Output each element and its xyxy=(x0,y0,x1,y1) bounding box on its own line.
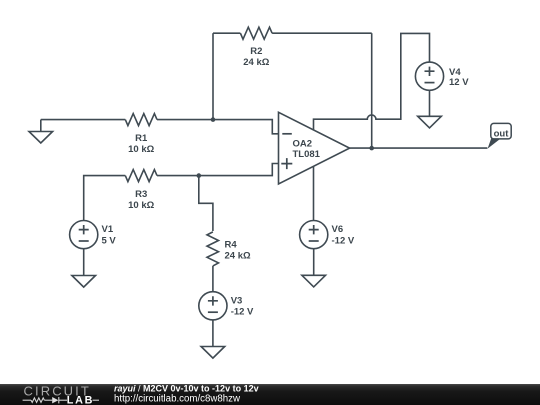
voltage source V4 xyxy=(415,62,469,90)
svg-text:R2: R2 xyxy=(250,46,262,57)
voltage source V3 xyxy=(199,292,254,320)
wire xyxy=(212,33,214,119)
svg-text:http://circuitlab.com/c8w8hzw: http://circuitlab.com/c8w8hzw xyxy=(114,394,241,405)
svg-text:10 kΩ: 10 kΩ xyxy=(128,200,154,211)
wire xyxy=(84,176,126,221)
wire xyxy=(199,176,213,231)
svg-text:R4: R4 xyxy=(225,240,238,251)
svg-text:V1: V1 xyxy=(102,224,114,235)
wire xyxy=(371,33,373,148)
wire xyxy=(213,32,240,34)
footer bar xyxy=(0,384,540,405)
svg-text:LAB: LAB xyxy=(67,394,94,405)
ground xyxy=(201,320,225,358)
svg-text:V6: V6 xyxy=(332,224,344,235)
node A junction xyxy=(211,117,216,122)
svg-text:R3: R3 xyxy=(135,189,147,200)
svg-text:-12 V: -12 V xyxy=(332,235,355,246)
svg-text:24 kΩ: 24 kΩ xyxy=(243,57,269,68)
svg-text:24 kΩ: 24 kΩ xyxy=(225,251,251,262)
resistor R1 xyxy=(125,114,157,155)
op-amp OA2 xyxy=(279,112,350,184)
wire xyxy=(314,33,430,130)
wire xyxy=(350,147,488,149)
wire xyxy=(157,175,199,177)
ground xyxy=(418,90,442,128)
node out flag xyxy=(488,123,512,148)
ground xyxy=(29,120,53,143)
svg-text:5 V: 5 V xyxy=(102,235,117,246)
svg-text:10 kΩ: 10 kΩ xyxy=(128,144,154,155)
wire xyxy=(41,119,126,121)
svg-text:rayui / M2CV 0v-10v to -12v to: rayui / M2CV 0v-10v to -12v to 12v xyxy=(114,383,259,393)
svg-text:out: out xyxy=(494,128,510,139)
svg-text:TL081: TL081 xyxy=(293,149,321,160)
svg-text:R1: R1 xyxy=(135,133,148,144)
CircuitLab logo xyxy=(23,384,99,405)
svg-text:V3: V3 xyxy=(231,295,243,306)
wire xyxy=(272,32,372,34)
node out junction xyxy=(369,146,374,151)
wire xyxy=(313,166,315,221)
footer text xyxy=(114,383,259,404)
resistor R3 xyxy=(125,170,157,211)
svg-text:-12 V: -12 V xyxy=(231,307,254,318)
resistor R4 xyxy=(207,232,251,266)
svg-text:12 V: 12 V xyxy=(449,77,469,88)
wire xyxy=(199,164,279,176)
voltage source V1 xyxy=(70,221,117,249)
node B junction xyxy=(197,173,202,178)
wire xyxy=(212,266,214,292)
resistor R2 xyxy=(240,27,272,68)
voltage source V6 xyxy=(300,221,355,249)
ground xyxy=(72,249,96,287)
wire xyxy=(213,120,279,134)
ground xyxy=(302,249,326,287)
wire xyxy=(157,119,213,121)
